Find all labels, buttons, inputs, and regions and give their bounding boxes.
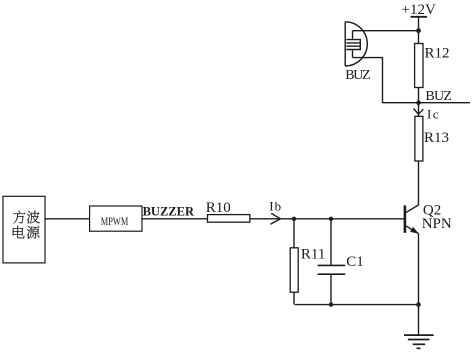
svg-text:Ib: Ib	[269, 198, 282, 213]
svg-text:C1: C1	[346, 254, 364, 270]
svg-text:BUZZER: BUZZER	[143, 205, 195, 219]
svg-text:Ic: Ic	[427, 107, 440, 122]
svg-text:R10: R10	[206, 200, 231, 216]
svg-text:MPWM: MPWM	[101, 216, 129, 229]
svg-text:R11: R11	[301, 246, 325, 262]
svg-text:BUZ: BUZ	[345, 68, 370, 83]
svg-text:NPN: NPN	[422, 216, 452, 232]
svg-text:R12: R12	[425, 45, 450, 61]
svg-text:+12V: +12V	[402, 2, 436, 18]
svg-text:R13: R13	[424, 130, 449, 146]
svg-text:BUZ: BUZ	[425, 89, 452, 104]
